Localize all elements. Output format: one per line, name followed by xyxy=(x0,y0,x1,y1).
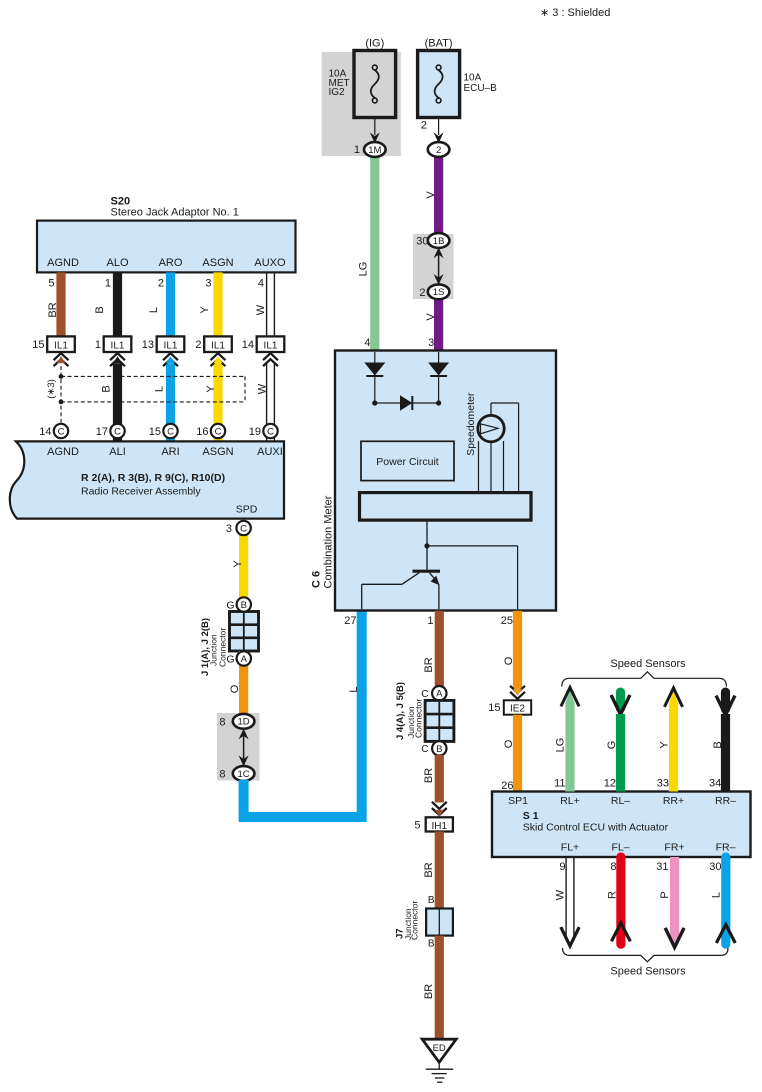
svg-text:G: G xyxy=(606,741,618,750)
svg-text:Power Circuit: Power Circuit xyxy=(376,456,439,468)
svg-text:Connector: Connector xyxy=(218,628,228,667)
svg-text:BR: BR xyxy=(47,302,59,317)
svg-text:ALO: ALO xyxy=(106,257,128,269)
svg-text:4: 4 xyxy=(258,278,264,290)
svg-text:17: 17 xyxy=(96,426,108,438)
svg-text:C: C xyxy=(167,426,174,437)
svg-text:FL+: FL+ xyxy=(561,842,579,854)
svg-text:ARO: ARO xyxy=(159,257,183,269)
svg-text:AGND: AGND xyxy=(47,446,79,458)
svg-text:J 4(A), J 5(B): J 4(A), J 5(B) xyxy=(395,682,406,740)
svg-text:1D: 1D xyxy=(238,717,250,728)
svg-text:8: 8 xyxy=(219,716,225,728)
svg-text:B: B xyxy=(428,895,435,906)
svg-text:26: 26 xyxy=(501,780,513,792)
svg-text:14: 14 xyxy=(242,339,254,351)
svg-text:C: C xyxy=(421,744,428,755)
svg-text:1: 1 xyxy=(95,339,101,351)
svg-text:AUXO: AUXO xyxy=(254,257,286,269)
svg-text:1B: 1B xyxy=(433,236,445,247)
svg-text:L: L xyxy=(154,386,166,392)
svg-text:1: 1 xyxy=(354,144,360,156)
svg-text:(∗3): (∗3) xyxy=(46,379,57,399)
svg-text:1: 1 xyxy=(105,278,111,290)
svg-text:13: 13 xyxy=(142,339,154,351)
svg-text:IH1: IH1 xyxy=(432,821,448,832)
svg-text:IL1: IL1 xyxy=(211,341,225,352)
svg-text:C: C xyxy=(114,426,121,437)
svg-text:Y: Y xyxy=(659,741,671,749)
svg-text:W: W xyxy=(257,383,269,394)
svg-text:(BAT): (BAT) xyxy=(425,38,453,50)
svg-text:BR: BR xyxy=(423,657,435,672)
svg-text:A: A xyxy=(241,654,248,665)
svg-text:R: R xyxy=(607,891,619,899)
svg-text:O: O xyxy=(503,656,515,665)
svg-text:ASGN: ASGN xyxy=(202,446,233,458)
svg-text:S 1: S 1 xyxy=(523,810,539,822)
svg-text:2: 2 xyxy=(195,339,201,351)
svg-text:15: 15 xyxy=(488,702,500,714)
svg-text:IL1: IL1 xyxy=(264,341,278,352)
svg-text:BR: BR xyxy=(423,768,435,783)
svg-text:O: O xyxy=(229,684,241,693)
svg-text:C: C xyxy=(58,426,65,437)
svg-text:R 2(A), R 3(B), R 9(C), R10(D): R 2(A), R 3(B), R 9(C), R10(D) xyxy=(81,472,225,484)
svg-text:∗ 3 : Shielded: ∗ 3 : Shielded xyxy=(540,7,610,19)
svg-text:AUXI: AUXI xyxy=(257,446,283,458)
svg-text:FR+: FR+ xyxy=(664,842,684,854)
svg-text:RL+: RL+ xyxy=(560,795,580,807)
svg-text:Combination Meter: Combination Meter xyxy=(323,495,335,588)
svg-text:C: C xyxy=(267,426,274,437)
svg-text:LG: LG xyxy=(358,262,370,277)
svg-text:L: L xyxy=(148,307,160,313)
svg-text:G: G xyxy=(226,599,234,611)
svg-text:W: W xyxy=(555,889,567,900)
svg-text:P: P xyxy=(659,891,671,898)
svg-text:Connector: Connector xyxy=(414,699,424,738)
svg-text:ECU–B: ECU–B xyxy=(464,83,498,94)
svg-text:Skid Control ECU with Actuator: Skid Control ECU with Actuator xyxy=(523,822,669,834)
svg-text:B: B xyxy=(241,600,247,611)
svg-text:Y: Y xyxy=(205,385,217,393)
svg-text:A: A xyxy=(436,689,443,700)
svg-text:V: V xyxy=(425,191,437,199)
svg-text:Stereo Jack Adaptor No. 1: Stereo Jack Adaptor No. 1 xyxy=(111,207,239,219)
svg-text:C: C xyxy=(215,426,222,437)
svg-text:16: 16 xyxy=(196,426,208,438)
svg-text:1: 1 xyxy=(427,615,433,627)
svg-text:ALI: ALI xyxy=(109,446,126,458)
svg-text:IL1: IL1 xyxy=(164,341,178,352)
svg-text:B: B xyxy=(436,744,442,755)
svg-text:15: 15 xyxy=(149,426,161,438)
svg-text:3: 3 xyxy=(205,278,211,290)
svg-text:Connector: Connector xyxy=(410,901,420,940)
svg-text:3: 3 xyxy=(226,523,232,535)
svg-text:34: 34 xyxy=(709,778,721,790)
svg-text:Speedometer: Speedometer xyxy=(465,392,477,456)
svg-text:2: 2 xyxy=(421,120,427,132)
svg-text:O: O xyxy=(503,739,515,748)
svg-text:8: 8 xyxy=(219,769,225,781)
svg-text:B: B xyxy=(94,306,106,313)
svg-text:Y: Y xyxy=(232,560,244,568)
svg-text:SPD: SPD xyxy=(236,504,258,516)
svg-text:2: 2 xyxy=(158,278,164,290)
svg-text:L: L xyxy=(711,892,723,898)
svg-text:B: B xyxy=(428,939,435,950)
svg-text:IG2: IG2 xyxy=(329,87,346,98)
svg-text:8: 8 xyxy=(610,861,616,873)
svg-text:25: 25 xyxy=(501,615,513,627)
svg-text:14: 14 xyxy=(39,426,51,438)
svg-text:33: 33 xyxy=(657,778,669,790)
svg-text:FR–: FR– xyxy=(716,842,736,854)
svg-text:1C: 1C xyxy=(238,769,250,780)
svg-text:RL–: RL– xyxy=(611,795,630,807)
svg-text:BR: BR xyxy=(423,862,435,877)
svg-text:Speed Sensors: Speed Sensors xyxy=(610,658,686,670)
svg-text:Y: Y xyxy=(199,306,211,314)
svg-text:1M: 1M xyxy=(368,145,381,156)
svg-text:(IG): (IG) xyxy=(365,38,384,50)
svg-text:4: 4 xyxy=(364,337,370,349)
svg-text:2: 2 xyxy=(419,287,425,299)
svg-text:B: B xyxy=(101,385,113,392)
svg-text:C: C xyxy=(240,523,247,534)
svg-text:G: G xyxy=(226,653,234,665)
svg-text:11: 11 xyxy=(554,778,565,790)
svg-text:9: 9 xyxy=(559,861,565,873)
svg-text:B: B xyxy=(712,741,724,748)
svg-text:RR+: RR+ xyxy=(663,795,684,807)
svg-text:1S: 1S xyxy=(433,287,445,298)
svg-text:SP1: SP1 xyxy=(508,795,528,807)
svg-text:RR–: RR– xyxy=(715,795,736,807)
svg-text:2: 2 xyxy=(436,145,441,156)
svg-text:ASGN: ASGN xyxy=(202,257,233,269)
svg-text:IE2: IE2 xyxy=(510,704,525,715)
svg-text:ED: ED xyxy=(433,1043,446,1054)
svg-text:Radio Receiver Assembly: Radio Receiver Assembly xyxy=(81,486,201,498)
svg-text:19: 19 xyxy=(249,426,261,438)
svg-text:Speed Sensors: Speed Sensors xyxy=(610,966,686,978)
svg-text:31: 31 xyxy=(656,861,668,873)
svg-text:V: V xyxy=(425,313,437,321)
svg-text:IL1: IL1 xyxy=(111,341,125,352)
svg-text:L: L xyxy=(348,686,360,692)
svg-text:LG: LG xyxy=(555,738,567,753)
svg-text:12: 12 xyxy=(604,778,616,790)
svg-text:3: 3 xyxy=(428,337,434,349)
svg-text:IL1: IL1 xyxy=(54,341,68,352)
svg-text:10A: 10A xyxy=(464,73,482,84)
svg-text:FL–: FL– xyxy=(611,842,629,854)
svg-text:ARI: ARI xyxy=(161,446,179,458)
svg-text:30: 30 xyxy=(416,236,428,248)
svg-text:5: 5 xyxy=(48,278,54,290)
svg-text:27: 27 xyxy=(344,615,356,627)
svg-text:5: 5 xyxy=(414,819,420,831)
svg-text:W: W xyxy=(255,304,267,315)
svg-text:15: 15 xyxy=(32,339,44,351)
svg-text:AGND: AGND xyxy=(47,257,79,269)
svg-text:30: 30 xyxy=(709,861,721,873)
svg-text:C: C xyxy=(421,689,428,700)
svg-text:BR: BR xyxy=(423,984,435,999)
svg-text:C 6: C 6 xyxy=(311,571,323,588)
